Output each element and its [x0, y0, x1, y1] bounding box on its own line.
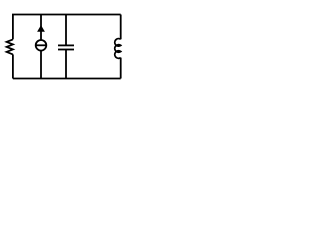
wire current source bottom [40, 51, 42, 79]
current source I (circle) [36, 40, 47, 51]
capacitor C top plate [58, 44, 74, 46]
wire current source top [40, 15, 42, 41]
capacitor C bottom plate [58, 49, 74, 51]
wire capacitor top [65, 15, 67, 46]
wire bottom border [13, 78, 121, 80]
current source I (arrow) [37, 25, 45, 32]
current source I (bar) [36, 44, 47, 46]
wire right border upper [120, 15, 122, 40]
wire right border lower [120, 58, 122, 79]
inductor L [115, 39, 121, 59]
wire left border lower [12, 54, 14, 78]
wire top border [13, 15, 121, 40]
resistor R [7, 39, 13, 54]
wire capacitor bottom [65, 50, 67, 79]
